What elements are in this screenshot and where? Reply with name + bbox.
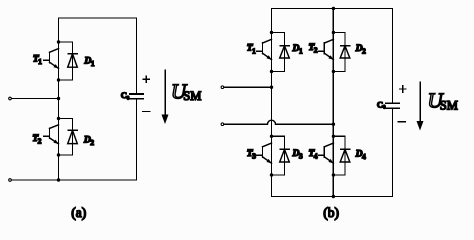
- svg-text:(b): (b): [323, 205, 339, 220]
- svg-text:SM: SM: [183, 89, 201, 103]
- svg-text:(a): (a): [71, 205, 86, 220]
- svg-text:SM: SM: [440, 98, 458, 112]
